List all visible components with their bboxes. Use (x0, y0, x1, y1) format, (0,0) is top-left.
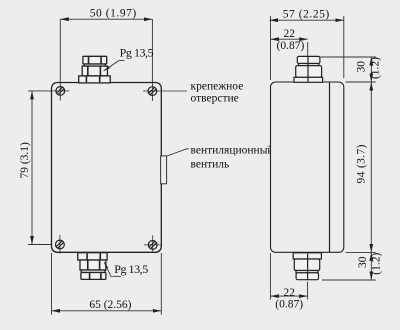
mounting screw top-right crosshair / leader to label (143, 90, 187, 92)
dimension 30 top extension upper (321, 56, 376, 58)
dimension 79 (3.1) line (31, 91, 33, 245)
mounting screw top-left crosshair (49, 90, 70, 92)
svg-text:вентиляционный: вентиляционный (191, 144, 274, 156)
svg-text:57 (2.25): 57 (2.25) (283, 9, 330, 21)
dimension 30 bottom extension upper (346, 251, 376, 253)
dimension 22 bottom line (270, 295, 307, 297)
svg-text:(0.87): (0.87) (275, 298, 303, 310)
leader Pg 13,5 bottom (104, 262, 121, 276)
dimension 50 (1.97) line (60, 18, 152, 20)
mounting screw top-right (148, 87, 157, 96)
side view lid joint line (329, 82, 331, 252)
svg-text:(1.2): (1.2) (370, 253, 382, 275)
svg-text:(0.87): (0.87) (277, 40, 305, 52)
gland top axis line (307, 56, 309, 81)
dimension 94 (3.7) line (370, 82, 372, 252)
leader ventilation valve (167, 149, 189, 156)
svg-text:22: 22 (283, 28, 295, 40)
gland bottom axis line (307, 254, 309, 280)
svg-text:(1.2): (1.2) (370, 57, 382, 79)
dimension 30 bottom line (370, 252, 372, 280)
cable gland bottom (side view) (293, 253, 321, 280)
dimension 22 bottom extension right (307, 282, 309, 300)
svg-text:Pg 13,5: Pg 13,5 (114, 262, 148, 276)
dimension 50 extension through box, left (59, 82, 61, 101)
svg-text:50 (1.97): 50 (1.97) (90, 8, 137, 20)
svg-text:вентиль: вентиль (191, 159, 230, 171)
dimension 22 top line (271, 38, 308, 40)
front view enclosure box (52, 83, 162, 253)
mounting screw bottom-right crosshair (144, 244, 161, 246)
side view enclosure box (271, 82, 344, 252)
dimension 79 extension line top (28, 90, 69, 92)
dimension 30 top extension lower (346, 81, 376, 83)
svg-text:Pg 13,5: Pg 13,5 (120, 46, 154, 60)
dimension 65 extension line right (160, 253, 162, 315)
mounting screw bottom-left crosshair (59, 235, 61, 254)
dimension 65 extension line left (51, 253, 53, 315)
cable gland Pg 13,5 bottom (front view) (78, 253, 107, 280)
svg-text:30: 30 (356, 61, 368, 73)
cable gland top (side view) (294, 56, 323, 82)
dimension 30 bottom extension lower (322, 279, 376, 281)
ventilation valve tab on right edge (161, 156, 167, 184)
svg-text:65 (2.56): 65 (2.56) (89, 299, 131, 311)
svg-text:94 (3.7): 94 (3.7) (356, 144, 368, 183)
dimension 57 extension left (270, 16, 272, 80)
svg-text:30: 30 (357, 256, 369, 268)
leader Pg 13,5 top (104, 61, 125, 71)
mounting screw bottom-left (56, 240, 65, 249)
dimension 30 top line (370, 57, 372, 82)
dimension 22 top extension right (307, 42, 309, 56)
dimension 50 extension line right (151, 19, 153, 101)
dimension 79 extension line bottom (28, 244, 69, 246)
mounting screw top-left (56, 87, 65, 96)
mounting screw bottom-right (148, 241, 157, 250)
svg-text:79 (3.1): 79 (3.1) (19, 142, 31, 179)
dimension 22 bottom extension left (269, 253, 271, 300)
svg-text:22: 22 (283, 287, 295, 299)
dimension 50 extension line left (59, 19, 61, 100)
dimension 57 extension right (343, 16, 345, 78)
svg-text:крепежное: крепежное (191, 81, 244, 93)
dimension 50 extension through box, right (151, 82, 153, 101)
svg-text:отверстие: отверстие (191, 93, 239, 105)
cable gland Pg 13,5 top (front view) (79, 56, 111, 83)
dimension 57 (2.25) line (270, 19, 344, 21)
dimension 65 (2.56) line (52, 310, 162, 312)
